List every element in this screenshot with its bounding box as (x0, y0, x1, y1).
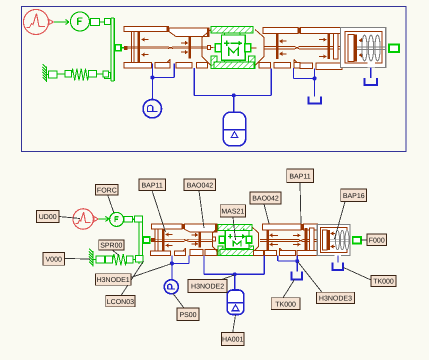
svg-text:FORC: FORC (97, 187, 117, 194)
svg-text:BAP16: BAP16 (343, 193, 365, 200)
svg-text:PS00: PS00 (179, 312, 196, 319)
svg-text:TK000: TK000 (373, 279, 394, 286)
svg-text:V000: V000 (46, 257, 62, 264)
svg-text:F000: F000 (369, 237, 385, 244)
svg-text:MAS21: MAS21 (221, 208, 244, 215)
svg-text:H3NODE1: H3NODE1 (97, 277, 130, 284)
svg-text:BAP11: BAP11 (142, 182, 163, 189)
svg-text:BAP11: BAP11 (289, 173, 310, 180)
svg-text:UD00: UD00 (39, 214, 57, 221)
svg-text:H3NODE3: H3NODE3 (319, 296, 352, 303)
svg-text:TK000: TK000 (275, 301, 296, 308)
svg-text:H3NODE2: H3NODE2 (191, 284, 224, 291)
svg-text:HA001: HA001 (222, 337, 244, 344)
svg-text:BAO042: BAO042 (187, 183, 214, 190)
svg-text:LCON03: LCON03 (107, 299, 134, 306)
svg-text:SPR00: SPR00 (100, 243, 122, 250)
svg-text:BAO042: BAO042 (252, 196, 279, 203)
